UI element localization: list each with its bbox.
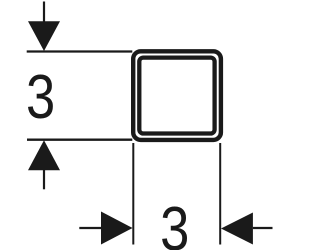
svg-text:3: 3 xyxy=(160,195,189,250)
svg-text:3: 3 xyxy=(26,63,55,132)
